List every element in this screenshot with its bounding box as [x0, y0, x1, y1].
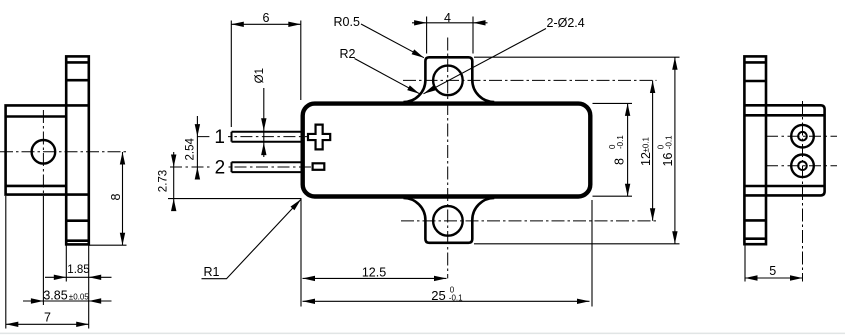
left view extension line from flange right edge down [88, 245, 90, 329]
dimension 12.5 extension line left [300, 199, 302, 307]
anode plus symbol [308, 125, 330, 150]
svg-text:-0.1: -0.1 [616, 135, 625, 149]
dimension 12 tolerance text [639, 136, 653, 166]
dimension 6 extension line right [300, 21, 302, 101]
front view body outline [303, 104, 591, 197]
dimension 6 line [231, 23, 300, 25]
left view body block outline [6, 105, 89, 194]
front view top hole horizontal centerline [403, 79, 657, 81]
svg-text:R2: R2 [340, 47, 356, 61]
left view flange bottom step line [66, 239, 89, 242]
dimension 2.73 text [158, 170, 170, 192]
pin 1 lead outline [232, 131, 303, 133]
label R0.5 leader [361, 24, 424, 58]
left view flange plate (edge-on) outline [66, 56, 89, 244]
left view flange top step line [66, 61, 89, 64]
dimension 25 line [303, 300, 590, 302]
svg-text:-0.1: -0.1 [449, 293, 463, 302]
svg-text:1.85: 1.85 [67, 264, 89, 276]
left view mounting hole circle [32, 140, 56, 164]
dimension dia1 text [254, 68, 266, 83]
right view body block inner top line [744, 114, 823, 117]
svg-text:1: 1 [214, 127, 225, 148]
dimension 16 line [674, 57, 676, 244]
svg-text:5: 5 [769, 264, 776, 278]
svg-text:12.5: 12.5 [362, 266, 386, 280]
right view pin 2 horizontal centerline [766, 165, 837, 167]
right view flange top step line [744, 61, 766, 64]
svg-text:R1: R1 [204, 265, 220, 279]
dimension 8 tolerance text [608, 135, 626, 165]
right view body block inner bottom line [744, 185, 823, 188]
right view flange plate outline [744, 56, 766, 244]
front view bottom hole horizontal centerline [401, 220, 657, 222]
dimension 4 extension line right [472, 17, 474, 54]
svg-text:2.73: 2.73 [158, 170, 170, 192]
svg-text:±0.05: ±0.05 [69, 293, 90, 302]
right view flange upper step line [744, 80, 766, 83]
svg-text:3.85: 3.85 [43, 288, 67, 302]
svg-text:8: 8 [613, 158, 627, 165]
dimension 2.54 text [185, 138, 197, 161]
svg-text:2-Ø2.4: 2-Ø2.4 [547, 16, 585, 30]
left view dimension 8 extension line bottom [89, 244, 127, 246]
dimension 8 line [627, 103, 629, 196]
front view bottom tab hole 2-dia2.4 [433, 206, 463, 236]
dimension 16 tolerance text [657, 135, 675, 167]
right view pin 2 insulator circle [791, 155, 814, 178]
dimension 6 extension line left [230, 21, 232, 128]
right view pin 1 insulator circle [791, 125, 814, 148]
right view extension line from flange left edge [744, 244, 746, 281]
cathode minus symbol [313, 163, 325, 170]
dimension 12.5 line [303, 277, 447, 279]
left view dimension 7 line [6, 323, 89, 325]
body bottom edge extension line [168, 198, 302, 200]
pin 2 label background [211, 158, 229, 175]
right view pin 1 horizontal centerline [766, 135, 837, 137]
dimension 16 extension line top [474, 56, 680, 58]
left view flange lower step line [66, 219, 89, 222]
dimension 2.54 line [196, 116, 198, 180]
dimension 4 extension line left [426, 17, 428, 54]
front view top tab hole 2-dia2.4 [433, 66, 463, 96]
left view extension line from flange left edge down [65, 245, 67, 282]
svg-text:16: 16 [661, 153, 675, 167]
pin 1 centerline [197, 136, 307, 138]
front view vertical centerline through tabs [447, 38, 449, 279]
dimension dia1 leader line [263, 88, 265, 157]
right view pin 2 lead circle [798, 162, 807, 171]
svg-text:Ø1: Ø1 [254, 68, 266, 83]
right view flange bottom step line [744, 237, 766, 240]
pin 2 lead outline [232, 161, 303, 163]
left view dimension 3.85 line [23, 300, 112, 302]
svg-text:6: 6 [263, 11, 270, 25]
dimension 16 extension line bottom [474, 243, 680, 245]
right view dimension 5 line [745, 277, 803, 279]
svg-text:2.54: 2.54 [185, 138, 197, 161]
front view bottom mounting tab outline [403, 198, 494, 243]
pin 2 centerline [170, 166, 312, 168]
right view body block outline [744, 105, 824, 195]
left view body block inner bottom line [6, 185, 67, 188]
dimension 25 extension line right [591, 200, 593, 307]
right view vertical centerline [802, 101, 804, 282]
svg-text:-0.1: -0.1 [665, 135, 674, 149]
svg-text:12: 12 [639, 152, 653, 166]
left view dimension 1.85 line [45, 276, 112, 278]
left view extension line from block left edge down [5, 196, 7, 329]
svg-text:7: 7 [44, 310, 51, 324]
svg-text:4: 4 [444, 11, 451, 25]
svg-text:±0.1: ±0.1 [642, 136, 651, 152]
left view horizontal centerline [0, 151, 127, 153]
dimension 4 line [412, 22, 488, 24]
label R1 leader [202, 199, 302, 278]
left view body block inner top line [6, 115, 67, 118]
left view flange upper step line [66, 79, 89, 82]
svg-text:2: 2 [215, 158, 226, 179]
dimension 2.73 line [173, 152, 175, 210]
dimension 8 extension line top [593, 102, 633, 104]
front view top mounting tab outline [403, 57, 494, 102]
pin 1 label background [211, 128, 228, 145]
left view dimension 8 text [109, 193, 123, 200]
bottom page edge artifact line [0, 333, 845, 335]
label 2-dia2.4 leader [424, 29, 547, 94]
left view vertical centerline [42, 110, 44, 196]
dimension 8 extension line bottom [593, 195, 633, 197]
left view dimension 8 line [122, 152, 124, 245]
svg-text:R0.5: R0.5 [334, 15, 360, 29]
right view flange lower step line [744, 219, 766, 222]
dimension 12 line [652, 81, 654, 221]
left view extension line from hole center down [42, 196, 44, 305]
right view pin 1 lead circle [798, 132, 807, 141]
label R2 leader [355, 59, 420, 94]
svg-text:8: 8 [109, 193, 123, 200]
svg-text:25: 25 [431, 288, 445, 303]
